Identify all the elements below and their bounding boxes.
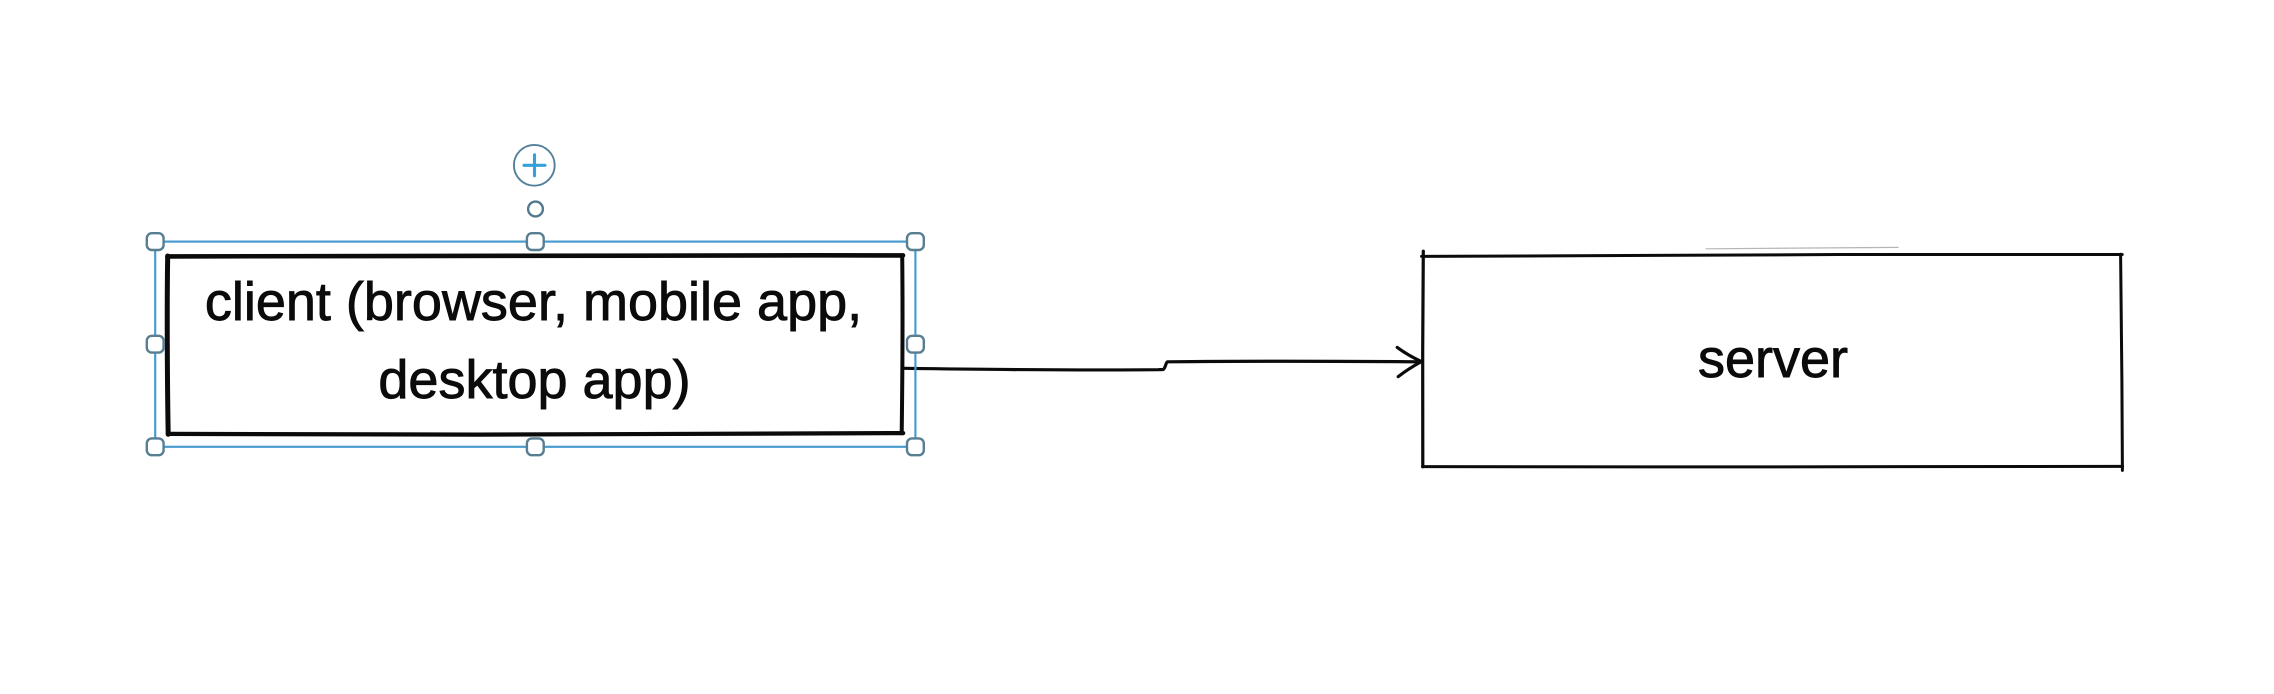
handle bottom-middle	[527, 438, 544, 455]
client box (rectangle shape, hand-drawn)	[167, 255, 903, 434]
handle top-middle	[527, 233, 544, 250]
svg-text:server: server	[1698, 329, 1848, 389]
server box (rectangle shape, hand-drawn)	[1422, 247, 2123, 470]
handle bottom-right	[907, 438, 924, 455]
connector stem small circle	[528, 202, 543, 217]
handle middle-left	[147, 336, 164, 353]
plus button circle	[514, 145, 555, 186]
client box label: "client (browser, mobile app, desktop app)"	[205, 272, 862, 410]
handle top-left	[147, 233, 164, 250]
selection frame (blue bounding box)	[155, 242, 915, 447]
handle middle-right	[907, 336, 924, 353]
arrow (connector from client to server)	[905, 347, 1422, 376]
svg-text:desktop app): desktop app)	[378, 350, 690, 410]
handle bottom-left	[147, 438, 164, 455]
handle top-right	[907, 233, 924, 250]
plus button cross	[524, 155, 545, 176]
svg-text:client (browser, mobile app,: client (browser, mobile app,	[205, 272, 862, 332]
